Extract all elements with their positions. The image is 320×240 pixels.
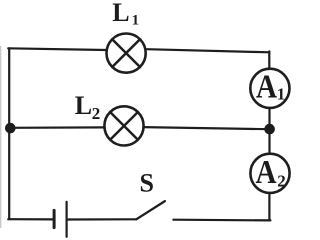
lamp L2 cross [110, 112, 138, 140]
wire: middle right horizontal from lamp L2 to right junction [143, 127, 270, 129]
switch S blade [136, 201, 165, 219]
svg-text:S: S [140, 168, 154, 197]
svg-text:2: 2 [277, 171, 286, 190]
wire: right rail A1 to A2 through junction [268, 109, 270, 154]
svg-text:A: A [256, 154, 277, 191]
wire: bottom right horizontal from right rail to switch contact [173, 219, 270, 222]
wire: right rail top corner down to ammeter A1 [268, 51, 270, 68]
ammeter A1 circle [250, 69, 289, 108]
svg-text:L: L [75, 91, 92, 120]
svg-text:2: 2 [92, 104, 101, 123]
ammeter A2 circle [250, 154, 289, 193]
wire: top left horizontal to lamp L1 [8, 48, 105, 50]
wire: battery to switch pivot [68, 218, 137, 220]
lamp L2 circle [104, 106, 143, 145]
svg-text:1: 1 [132, 12, 140, 28]
wire: top right horizontal from lamp L1 to right rail [147, 49, 270, 52]
lamp L1 cross [112, 39, 140, 67]
lamp L1 circle [107, 34, 146, 73]
scan artifact left edge [0, 46, 2, 228]
wire: right rail A2 bottom to bottom wire [268, 194, 270, 221]
battery positive long plate [65, 202, 67, 237]
svg-text:1: 1 [277, 85, 286, 104]
wire: left rail vertical [8, 48, 10, 219]
wire: middle left horizontal from junction to lamp L2 [10, 126, 105, 129]
wire: bottom left horizontal from left rail to battery [8, 218, 52, 220]
battery negative short plate [53, 210, 56, 227]
node: right junction dot [264, 124, 275, 135]
node: left junction dot [5, 123, 16, 134]
svg-text:L: L [112, 0, 129, 27]
svg-text:A: A [256, 68, 277, 105]
